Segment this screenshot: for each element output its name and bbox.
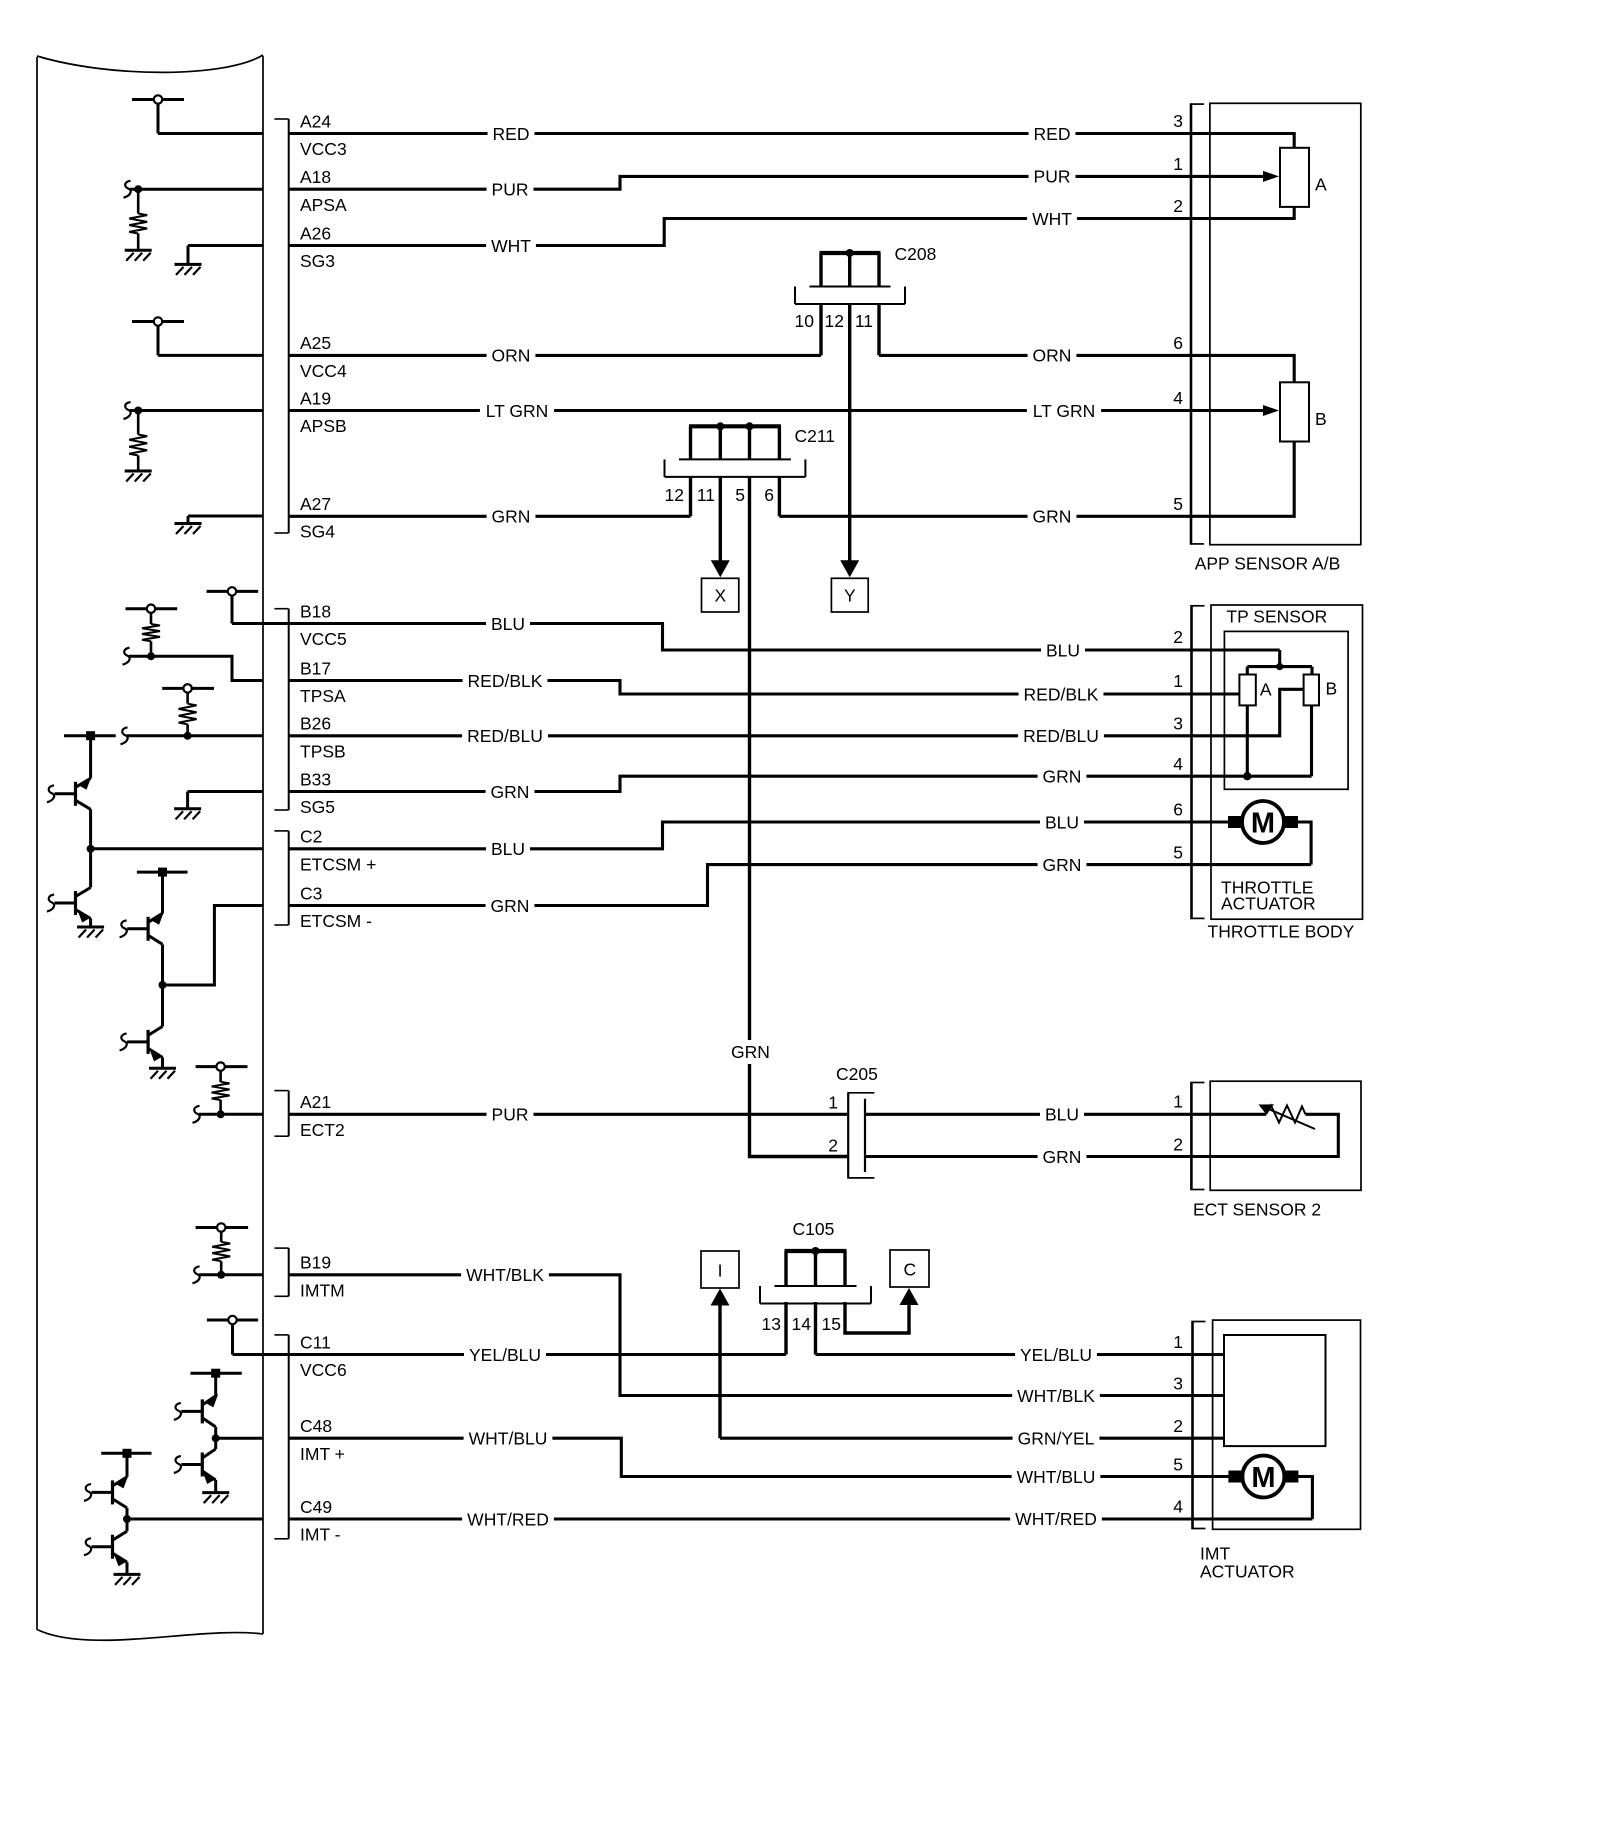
wire BLU B18 to TP pin 2 <box>232 624 1280 651</box>
ECT thermistor zigzag <box>1266 1106 1306 1123</box>
svg-text:A25: A25 <box>300 333 331 353</box>
svg-text:C205: C205 <box>836 1064 878 1084</box>
arrowhead to C <box>900 1288 919 1305</box>
connector C208 <box>795 249 905 304</box>
wire C3 ETCSM- internal <box>163 906 264 986</box>
svg-text:3: 3 <box>1173 111 1183 131</box>
label RED left <box>488 124 535 144</box>
ground Q4 <box>149 1068 176 1079</box>
junction dot A19/resistor <box>134 407 142 415</box>
svg-text:ETCSM -: ETCSM - <box>300 911 372 931</box>
svg-text:C49: C49 <box>300 1497 332 1517</box>
svg-text:3: 3 <box>1173 714 1183 734</box>
svg-text:M: M <box>1251 1462 1275 1494</box>
svg-text:TP SENSOR: TP SENSOR <box>1226 606 1327 626</box>
label BLU ECT right <box>1040 1104 1084 1124</box>
svg-text:1: 1 <box>1173 1332 1183 1352</box>
svg-text:A18: A18 <box>300 167 331 187</box>
ECT variable arrow <box>1259 1104 1316 1129</box>
svg-text:5: 5 <box>1173 1455 1183 1475</box>
collector rail of Q1 <box>64 731 116 740</box>
junction node C48 <box>212 1434 220 1442</box>
ground SG4 <box>175 524 202 535</box>
svg-text:RED/BLK: RED/BLK <box>1024 684 1099 704</box>
label APP SENSOR A/B <box>1195 554 1341 574</box>
junction node C2 <box>87 845 95 853</box>
box ECT SENSOR 2 <box>1210 1081 1361 1190</box>
label BLU C2 left <box>486 839 530 859</box>
svg-text:IMT: IMT <box>1200 1544 1230 1564</box>
transistor Q5 (PNP, IMT driver) <box>174 1373 219 1438</box>
label RED/BLK left <box>463 671 548 691</box>
resistor R-TPSA <box>142 612 160 656</box>
svg-text:C11: C11 <box>300 1332 331 1352</box>
svg-text:2: 2 <box>828 1136 838 1156</box>
transistor Q1 (PNP, ETCS driver) <box>47 736 92 849</box>
label BLU C2 right <box>1040 812 1084 832</box>
VCC symbol for pin C11 (VCC6) <box>207 1316 258 1355</box>
squiggle input IMTM <box>193 1266 200 1283</box>
svg-text:ACTUATOR: ACTUATOR <box>1221 893 1316 913</box>
wire PUR A21 to C205 pin 1 <box>289 1113 849 1116</box>
pin label B26/TPSB <box>300 714 346 762</box>
pin label C11/VCC6 <box>300 1332 347 1380</box>
TP bottom wiring <box>1247 705 1311 776</box>
arrowhead to X <box>711 560 730 577</box>
svg-text:15: 15 <box>822 1314 841 1334</box>
wire A24 VCC3 to connector <box>158 132 263 135</box>
pin label C49/IMT - <box>300 1497 341 1545</box>
VCC symbol above R-TPSA <box>126 605 178 613</box>
arrowhead to Y <box>840 560 859 577</box>
wire PUR A18 to APP pin 1 <box>289 176 1263 189</box>
resistor R-APSA <box>129 189 147 250</box>
throttle motor return loop <box>1298 822 1311 865</box>
wire A26 SG3 internal <box>188 246 263 265</box>
arrow into pot A <box>1263 171 1279 182</box>
transistor Q3 (PNP) <box>120 872 165 985</box>
label ECT SENSOR 2 <box>1193 1199 1321 1219</box>
IMT motor return loop <box>1298 1477 1312 1520</box>
svg-text:WHT: WHT <box>491 236 531 256</box>
pin label B17/TPSA <box>300 658 346 706</box>
wire BLU C205 to ECT pin 1 <box>865 1113 1266 1116</box>
svg-text:GRN: GRN <box>1043 767 1082 787</box>
pin label B19/IMTM <box>300 1253 345 1301</box>
svg-text:BLU: BLU <box>1045 1105 1079 1125</box>
ground for R-APSA <box>125 250 152 261</box>
potentiometer B rect <box>1280 382 1309 441</box>
pin label A18/APSA <box>300 167 347 215</box>
wire B19 internal <box>199 1273 263 1276</box>
label PUR right <box>1029 166 1076 186</box>
wire YEL/BLU C105 pin 14 to IMT pin 1 <box>816 1302 1225 1355</box>
svg-text:GRN: GRN <box>492 507 531 527</box>
junction node C3 <box>159 981 167 989</box>
svg-text:1: 1 <box>1173 671 1183 691</box>
svg-text:5: 5 <box>735 485 745 505</box>
svg-text:GRN: GRN <box>731 1042 770 1062</box>
svg-text:ECT2: ECT2 <box>300 1120 345 1140</box>
transistor Q8 (NPN) <box>84 1519 127 1574</box>
wire Y branch from C208 pin 12 <box>848 304 851 561</box>
pin label A21/ECT2 <box>300 1092 345 1140</box>
wire RED A24 to APP pin 3 <box>289 134 1294 148</box>
VCC symbol above R-TPSB <box>162 684 214 692</box>
svg-text:12: 12 <box>825 311 844 331</box>
svg-text:VCC6: VCC6 <box>300 1360 347 1380</box>
svg-text:I: I <box>718 1260 723 1280</box>
pin numbers APP 3/1/2/6/4/5 <box>1173 111 1183 514</box>
svg-text:WHT/BLU: WHT/BLU <box>469 1429 548 1449</box>
svg-text:B: B <box>1315 409 1327 429</box>
wire C branch from C105 pin 15 <box>845 1301 909 1333</box>
label TP A <box>1260 680 1272 700</box>
box IMT ACTUATOR <box>1213 1320 1361 1529</box>
svg-text:Y: Y <box>844 585 856 605</box>
wire GRN C205 to ECT pin 2 <box>865 1155 1210 1158</box>
ECU connector bracket A24-A27 <box>274 119 288 533</box>
label THROTTLE ACTUATOR <box>1221 878 1316 914</box>
resistor R-IMTM <box>212 1231 230 1275</box>
svg-text:A: A <box>1315 174 1327 194</box>
ground Q6 <box>202 1493 229 1504</box>
svg-text:A26: A26 <box>300 223 331 243</box>
svg-text:PUR: PUR <box>1034 167 1071 187</box>
box THROTTLE BODY <box>1211 605 1363 919</box>
junction dot B26 <box>184 732 192 740</box>
label ORN left <box>487 345 536 365</box>
svg-text:4: 4 <box>1173 388 1183 408</box>
squiggle input ECT2 <box>193 1106 200 1123</box>
wire WHT/RED C49 to IMT pin 4 <box>289 1517 1313 1520</box>
label YEL/BLU right <box>1015 1345 1097 1365</box>
svg-text:PUR: PUR <box>492 180 529 200</box>
connector C211 <box>665 422 806 477</box>
TP resistor B rect <box>1304 675 1319 706</box>
svg-text:14: 14 <box>792 1314 812 1334</box>
wire RED/BLK B17 to TP pin 1 <box>289 681 1240 695</box>
svg-text:RED: RED <box>493 124 530 144</box>
pin label C3/ETCSM - <box>300 883 372 931</box>
box TP SENSOR inner <box>1224 631 1348 789</box>
svg-text:BLU: BLU <box>1046 640 1080 660</box>
wire WHT A26 to APP pin 2 <box>289 207 1294 246</box>
VCC symbol for pin A24 (VCC3) <box>132 95 184 133</box>
IMT inner rect <box>1224 1335 1326 1446</box>
svg-text:B: B <box>1326 679 1338 699</box>
label GRN on vertical <box>731 1040 770 1064</box>
svg-text:11: 11 <box>697 485 715 505</box>
label WHT/RED right <box>1010 1509 1102 1529</box>
svg-text:11: 11 <box>855 311 873 331</box>
ECT inner loop <box>1210 1114 1338 1156</box>
ground for R-APSB <box>125 471 152 482</box>
svg-text:GRN/YEL: GRN/YEL <box>1018 1429 1095 1449</box>
IMT actuator motor <box>1228 1456 1298 1498</box>
svg-text:B33: B33 <box>300 769 331 789</box>
squiggle input APSA <box>124 181 131 198</box>
svg-text:TPSA: TPSA <box>300 686 346 706</box>
wire C48 IMT+ internal <box>216 1437 263 1440</box>
pin numbers C208 10/12/11 <box>795 311 873 331</box>
pin numbers THROTTLE 2/1/3/4/6/5 <box>1173 627 1183 862</box>
pin label C48/IMT + <box>300 1416 345 1464</box>
svg-text:LT GRN: LT GRN <box>1033 401 1096 421</box>
ground Q8 <box>114 1574 141 1585</box>
svg-text:2: 2 <box>1173 196 1183 216</box>
svg-text:VCC3: VCC3 <box>300 139 347 159</box>
box APP SENSOR A/B <box>1210 103 1361 544</box>
ECU / PCM outline box (torn top and bottom edges) <box>37 55 263 1640</box>
wire GRN C3 to throttle motor return <box>289 865 1311 906</box>
arrow into pot B <box>1263 405 1279 416</box>
svg-text:RED/BLK: RED/BLK <box>468 671 543 691</box>
transistor Q4 (NPN) <box>120 985 163 1068</box>
pin label C2/ETCSM + <box>300 827 376 875</box>
label WHT right <box>1027 209 1077 229</box>
wire B17 internal (step) <box>129 656 263 680</box>
label GRN left <box>487 506 536 526</box>
svg-text:3: 3 <box>1173 1374 1183 1394</box>
svg-text:1: 1 <box>1173 154 1183 174</box>
label YEL/BLU left <box>464 1345 546 1365</box>
collector rail of Q3 <box>137 868 188 877</box>
svg-text:1: 1 <box>1173 1092 1183 1112</box>
connector strip ECT sensor 2 <box>1191 1082 1204 1191</box>
potentiometer A rect <box>1280 148 1309 207</box>
svg-text:10: 10 <box>795 311 815 331</box>
svg-text:5: 5 <box>1173 842 1183 862</box>
svg-text:C2: C2 <box>300 827 322 847</box>
label THROTTLE BODY <box>1208 922 1355 942</box>
junction dot B19 <box>217 1271 225 1279</box>
junction node C49 <box>123 1515 131 1523</box>
svg-text:GRN: GRN <box>491 782 530 802</box>
wire BLU C2 to throttle motor <box>289 822 1229 849</box>
wire WHT/BLK B19 to IMT pin 3 <box>289 1275 1224 1396</box>
label GRN B33 right <box>1038 766 1087 786</box>
pin label A25/VCC4 <box>300 333 347 381</box>
svg-text:6: 6 <box>1173 800 1183 820</box>
svg-text:WHT/RED: WHT/RED <box>467 1509 549 1529</box>
svg-text:C48: C48 <box>300 1416 332 1436</box>
svg-text:GRN: GRN <box>1043 1147 1082 1167</box>
svg-text:M: M <box>1251 808 1275 840</box>
svg-text:RED/BLU: RED/BLU <box>467 726 543 746</box>
svg-text:SG3: SG3 <box>300 251 335 271</box>
wire GRN B33 to TP pin 4 <box>289 776 1248 791</box>
svg-text:B17: B17 <box>300 658 331 678</box>
svg-text:ETCSM +: ETCSM + <box>300 854 376 874</box>
svg-text:RED/BLU: RED/BLU <box>1023 726 1099 746</box>
svg-text:ECT SENSOR 2: ECT SENSOR 2 <box>1193 1199 1321 1219</box>
connector strip APP sensor <box>1191 103 1204 544</box>
label C205 <box>836 1064 878 1084</box>
svg-text:A19: A19 <box>300 388 331 408</box>
squiggle input APSB <box>124 402 131 419</box>
svg-text:2: 2 <box>1173 1135 1183 1155</box>
label C211 <box>795 426 836 446</box>
transistor Q7 (PNP) <box>84 1453 129 1519</box>
svg-text:WHT/RED: WHT/RED <box>1015 1509 1097 1529</box>
throttle actuator motor <box>1228 801 1298 843</box>
label WHT/BLU right <box>1012 1467 1101 1487</box>
svg-text:BLU: BLU <box>1045 812 1079 832</box>
svg-text:B18: B18 <box>300 601 331 621</box>
svg-text:4: 4 <box>1173 1497 1183 1517</box>
svg-text:BLU: BLU <box>491 614 525 634</box>
svg-text:YEL/BLU: YEL/BLU <box>1020 1345 1092 1365</box>
label PUR left <box>487 179 534 199</box>
pin numbers IMT 1/3/2/5/4 <box>1173 1332 1183 1517</box>
transistor Q6 (NPN) <box>174 1438 216 1492</box>
pin numbers C211 12/11/5/6 <box>665 485 774 505</box>
wire I branch vertical <box>718 1303 721 1438</box>
VCC symbol for pin B18 (VCC5) <box>207 587 259 623</box>
label GRN C3 left <box>486 896 535 916</box>
label TP SENSOR <box>1226 606 1327 626</box>
wire B26 internal <box>127 734 263 737</box>
pin label A26/SG3 <box>300 223 335 271</box>
junction dot A18/resistor <box>134 185 142 193</box>
svg-text:5: 5 <box>1173 494 1183 514</box>
svg-text:C208: C208 <box>895 244 937 264</box>
box Y <box>831 578 868 612</box>
label IMT ACTUATOR <box>1200 1544 1295 1582</box>
VCC symbol above R-IMTM <box>196 1223 249 1231</box>
label WHT/BLK left <box>461 1265 549 1285</box>
label WHT/BLU left <box>464 1428 553 1448</box>
wire B33 SG5 internal <box>188 792 263 809</box>
resistor R-ECT2 <box>212 1070 230 1114</box>
svg-text:A21: A21 <box>300 1092 331 1112</box>
ground SG3 <box>175 264 202 275</box>
pin numbers C205 1/2 <box>828 1093 838 1156</box>
svg-text:VCC4: VCC4 <box>300 361 347 381</box>
VCC symbol for pin A25 (VCC4) <box>132 317 184 355</box>
wire C2 ETCSM+ internal <box>91 847 263 850</box>
box C <box>890 1250 929 1287</box>
label LT GRN right <box>1027 401 1101 421</box>
svg-text:GRN: GRN <box>1043 855 1082 875</box>
svg-text:A24: A24 <box>300 111 331 131</box>
svg-text:GRN: GRN <box>491 896 530 916</box>
wire A27 SG4 internal <box>188 516 263 524</box>
connector C205 <box>848 1092 874 1178</box>
wire A18 internal <box>130 188 263 191</box>
junction dot TP bottom <box>1243 772 1251 780</box>
wire YEL/BLU C11 to C105 pin 13 <box>233 1302 787 1355</box>
pin label A19/APSB <box>300 388 347 436</box>
svg-text:C105: C105 <box>793 1219 835 1239</box>
svg-text:X: X <box>715 585 727 605</box>
label BLU left <box>486 614 530 634</box>
label LT GRN left <box>480 401 554 421</box>
label GRN B33 left <box>486 782 535 802</box>
ECU connector bracket A21 <box>274 1091 288 1137</box>
svg-text:2: 2 <box>1173 1416 1183 1436</box>
ECU connector bracket B18-B33 <box>274 609 288 810</box>
label RED/BLU left <box>462 726 548 746</box>
TP top node wiring <box>1247 650 1312 675</box>
label C208 <box>895 244 937 264</box>
svg-text:LT GRN: LT GRN <box>486 401 549 421</box>
svg-text:A27: A27 <box>300 494 331 514</box>
wire C49 IMT- internal <box>127 1518 263 1521</box>
svg-text:IMT +: IMT + <box>300 1444 345 1464</box>
label BLU right <box>1041 640 1085 660</box>
svg-text:THROTTLE BODY: THROTTLE BODY <box>1208 922 1355 942</box>
svg-text:WHT: WHT <box>1032 209 1072 229</box>
box X <box>702 578 739 612</box>
pin label B33/SG5 <box>300 769 335 817</box>
ground SG5 <box>174 809 201 820</box>
squiggle input TPSA <box>123 648 130 665</box>
resistor R-APSB <box>129 411 147 472</box>
label WHT/BLK right <box>1012 1386 1100 1406</box>
wire A21 internal <box>199 1113 263 1116</box>
wire A19 internal <box>130 409 263 412</box>
svg-text:B26: B26 <box>300 714 331 734</box>
junction dot B17 <box>147 652 155 660</box>
svg-text:SG4: SG4 <box>300 522 335 542</box>
collector rail of Q5 <box>190 1369 241 1378</box>
pin numbers C105 13/14/15 <box>762 1314 841 1334</box>
svg-text:B19: B19 <box>300 1253 331 1273</box>
label GRN ECT right <box>1038 1147 1087 1167</box>
svg-text:WHT/BLK: WHT/BLK <box>466 1265 544 1285</box>
wire LT GRN A19 to APP pin 4 <box>289 409 1263 412</box>
box I <box>701 1251 739 1288</box>
label GRN right <box>1028 506 1077 526</box>
junction dot A21 <box>217 1110 225 1118</box>
wire X branch from C211 pin 11 <box>719 477 722 561</box>
pin label A24/VCC3 <box>300 111 347 159</box>
svg-text:GRN: GRN <box>1033 507 1072 527</box>
label PUR A21 left <box>487 1104 534 1124</box>
label ORN right <box>1028 345 1077 365</box>
svg-text:6: 6 <box>1173 333 1183 353</box>
label GRN/YEL right <box>1013 1428 1100 1448</box>
label TP B <box>1326 679 1338 699</box>
svg-text:12: 12 <box>665 485 684 505</box>
label RED/BLU right <box>1018 726 1104 746</box>
wire GRN/YEL IMT pin 2 to I branch <box>720 1437 1224 1440</box>
connector C105 <box>760 1247 871 1304</box>
svg-text:C211: C211 <box>795 426 836 446</box>
VCC symbol above R-ECT2 <box>196 1062 248 1070</box>
svg-text:SG5: SG5 <box>300 797 335 817</box>
svg-text:2: 2 <box>1173 627 1183 647</box>
svg-text:ORN: ORN <box>492 346 531 366</box>
label WHT left <box>486 236 536 256</box>
wire RED/BLU B26 to TP pin 3 <box>289 689 1304 736</box>
connector strip IMT actuator <box>1193 1321 1206 1530</box>
wire GRN A27 to C211 pin 12 <box>289 477 691 516</box>
label B <box>1315 409 1327 429</box>
transistor Q2 (NPN) <box>47 849 91 927</box>
wire GRN vertical C211 pin 5 to C205 pin 2 <box>750 477 849 1157</box>
svg-text:PUR: PUR <box>492 1105 529 1125</box>
svg-text:ORN: ORN <box>1033 346 1072 366</box>
wire GRN C211 pin 6 to APP pin 5 <box>779 442 1294 517</box>
label C105 <box>793 1219 835 1239</box>
connector strip throttle body <box>1192 605 1205 919</box>
label WHT/RED left <box>462 1509 554 1529</box>
label RED/BLK right <box>1019 684 1104 704</box>
svg-text:VCC5: VCC5 <box>300 629 347 649</box>
